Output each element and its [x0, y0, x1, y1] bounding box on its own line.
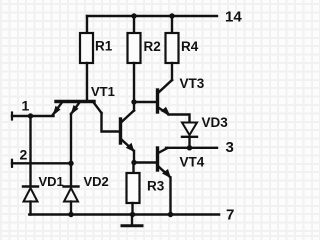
wire ground rail pin 7 — [29, 213, 219, 216]
svg-text:R2: R2 — [144, 39, 161, 54]
svg-text:VD1: VD1 — [39, 174, 64, 189]
wire R4 bottom to VT3 collector — [171, 63, 173, 80]
wire VD1 anode to ground rail — [29, 202, 31, 215]
wire rail to R4 — [171, 16, 173, 33]
resistor R4 — [166, 33, 179, 63]
pin 1 end tick — [11, 113, 13, 120]
wire VT3 base — [134, 101, 156, 103]
diode VD1 — [23, 187, 38, 202]
svg-text:1: 1 — [22, 98, 30, 114]
resistor R3 — [127, 173, 140, 203]
wire VT4 collector / output pin 3 — [166, 147, 217, 149]
wire VT3 emitter to VD3 — [169, 115, 190, 123]
wire VT4 base — [134, 161, 156, 163]
svg-text:R1: R1 — [95, 39, 113, 54]
svg-text:VT1: VT1 — [91, 84, 115, 99]
node VT2 emitter / R3 / VT4 base junction — [131, 160, 136, 165]
resistor R1 — [80, 33, 93, 63]
wire R2 bottom to VT2 collector — [133, 63, 135, 111]
wire Vcc top rail — [87, 15, 217, 17]
wire VT2 emitter down — [133, 151, 135, 163]
svg-text:R3: R3 — [147, 179, 165, 194]
diode VD3 — [182, 123, 197, 137]
node input2-VD2 junction — [68, 161, 73, 166]
pin 2 end tick — [11, 160, 13, 167]
wire input pin 2 — [12, 162, 71, 164]
svg-text:7: 7 — [226, 207, 234, 224]
node VT4 emitter-ground junction — [168, 212, 173, 217]
transistor VT2 (phase splitter) — [121, 111, 135, 153]
node rail-R2 junction — [131, 13, 136, 18]
svg-text:14: 14 — [225, 9, 242, 26]
wire VD3 cathode to output node — [188, 137, 190, 148]
node rail-R4 junction — [169, 13, 174, 18]
svg-text:VD2: VD2 — [84, 174, 109, 189]
svg-text:3: 3 — [226, 139, 234, 156]
wire R1 bottom to VT1 base — [86, 63, 88, 100]
wire node to R3 — [132, 163, 134, 174]
wire R3 bottom to ground rail — [131, 203, 133, 215]
svg-text:VT3: VT3 — [180, 76, 205, 91]
node VD3-output junction — [187, 145, 192, 150]
wire VT1 collector to VT2 base — [102, 113, 120, 132]
node VT2 collector / VT3 base junction — [131, 99, 136, 104]
diode VD2 — [64, 187, 79, 202]
node VD2-ground junction — [68, 212, 73, 217]
wire VT4 emitter to ground rail — [169, 178, 171, 215]
node R3-ground junction — [130, 212, 135, 217]
wire rail to R2 — [133, 16, 135, 33]
svg-text:VT4: VT4 — [180, 155, 205, 170]
transistor VT4 — [158, 148, 172, 178]
node input1-VD1 junction — [28, 113, 33, 118]
svg-text:VD3: VD3 — [202, 115, 229, 130]
wire VD2 anode to ground rail — [70, 202, 72, 215]
transistor VT3 — [158, 80, 173, 115]
resistor R2 — [128, 33, 141, 63]
wire input pin 1 — [12, 115, 54, 117]
wire VT1 emitter2 down through input2 to VD2 — [70, 114, 72, 186]
transistor VT1 (multi-emitter) — [53, 102, 102, 117]
ground symbol — [122, 215, 142, 226]
wire rail to R1 — [86, 16, 88, 33]
svg-text:2: 2 — [20, 147, 28, 163]
svg-text:R4: R4 — [181, 39, 199, 54]
wire input1 node down to VD1 — [29, 116, 31, 186]
